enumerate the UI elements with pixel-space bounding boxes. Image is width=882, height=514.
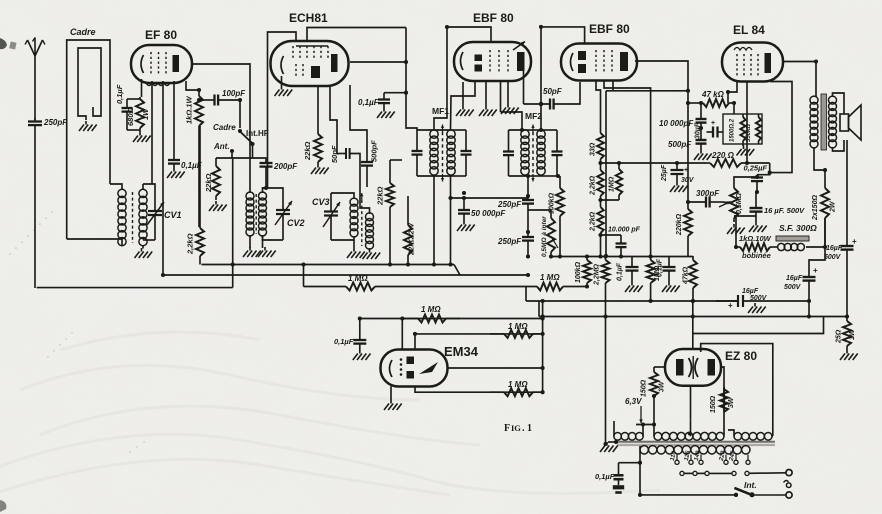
capacitor 500pF b <box>696 128 707 150</box>
wire diode to MF1 sec <box>451 82 476 130</box>
wire 0,1µF em <box>359 319 361 339</box>
label 16µF b <box>786 275 803 282</box>
svg-text:0,1µF: 0,1µF <box>115 84 124 104</box>
svg-text:16µF: 16µF <box>742 288 759 295</box>
junction <box>448 262 452 266</box>
core PT <box>615 441 775 443</box>
svg-text:6,3V: 6,3V <box>625 397 642 406</box>
resistor 2,2kΩ e1 <box>597 169 603 200</box>
wire return a <box>37 287 233 289</box>
wire EF80 grid <box>151 81 153 184</box>
junction <box>598 161 602 165</box>
resistor 1kΩ 1W <box>195 90 203 227</box>
wire EZ80 right plate <box>721 367 724 431</box>
svg-text:350kΩ: 350kΩ <box>746 124 752 142</box>
ground 0,1µF mains <box>613 485 624 489</box>
label 1MΩ em a <box>421 305 441 314</box>
core MF2 <box>532 132 534 135</box>
label 50pF osc <box>330 145 339 163</box>
label 10 000pF <box>659 119 694 128</box>
svg-text:22kΩ.2W: 22kΩ.2W <box>407 222 416 256</box>
label 1W <box>141 108 150 120</box>
junction <box>598 254 602 258</box>
wire L4 gnd lead <box>262 235 264 248</box>
label 1kΩ 1W <box>185 96 194 124</box>
label 22kΩ 2W <box>407 222 416 256</box>
antenna <box>25 38 45 121</box>
coil PT 6,3V winding <box>614 433 643 441</box>
capacitor MF2 cap a <box>503 130 514 176</box>
label 16µF a <box>826 245 843 252</box>
electrolytic 16µF d <box>716 295 761 310</box>
junction <box>539 102 543 106</box>
ground cadre <box>79 121 97 131</box>
ground EBF80a g <box>479 106 497 116</box>
svg-text:1W: 1W <box>141 108 150 120</box>
resistor 22kΩ switch <box>212 158 220 200</box>
ground EF80 cathode <box>133 132 151 142</box>
wire EBF80a g3 <box>507 82 509 104</box>
svg-text:1500Ω.2: 1500Ω.2 <box>730 118 736 142</box>
junction <box>638 461 642 465</box>
choke SF bar <box>776 236 809 241</box>
label 25Ω <box>836 329 843 344</box>
label 250pF <box>43 118 68 127</box>
svg-text:1kΩ.1W: 1kΩ.1W <box>185 96 194 124</box>
svg-text:16 µF. 500V: 16 µF. 500V <box>764 206 805 215</box>
core L5/L6 <box>361 200 363 203</box>
wire 63 right <box>642 425 644 437</box>
pot arrow <box>552 238 558 248</box>
label 22kΩ det <box>376 186 385 206</box>
wire MF1 prim bottom <box>433 176 435 265</box>
wire to 16uF mid <box>809 247 825 274</box>
label 1MΩ det <box>348 274 368 283</box>
tube label EF80 <box>145 28 177 42</box>
junction <box>691 299 695 303</box>
resistor 22kΩ det <box>386 160 394 265</box>
label 47kΩ <box>701 90 725 99</box>
label 22kΩ sw <box>204 173 213 193</box>
junction <box>388 262 392 266</box>
svg-text:500V: 500V <box>784 284 802 291</box>
label Int <box>744 480 757 490</box>
capacitor MF1 cap a <box>412 130 423 176</box>
junction <box>814 59 818 63</box>
label 2W <box>830 200 837 213</box>
junction <box>541 316 545 320</box>
label 0,5MΩ vol <box>736 192 743 214</box>
wire ECH81 anode link <box>350 61 406 63</box>
svg-text:1kΩ.10W: 1kΩ.10W <box>739 234 772 243</box>
svg-text:0,1µF: 0,1µF <box>358 98 380 107</box>
wire sel c <box>697 472 705 474</box>
svg-text:500V: 500V <box>750 295 768 302</box>
svg-text:25µF: 25µF <box>661 164 668 182</box>
wire 5v left <box>728 430 734 436</box>
label 10.000pF <box>608 227 641 234</box>
junction <box>617 161 621 165</box>
switch Int.HF <box>239 131 255 147</box>
resistor 47kΩ b <box>689 256 697 301</box>
wire EM34 line4 <box>415 386 543 392</box>
label 350kΩ <box>746 124 752 142</box>
svg-text:250pF: 250pF <box>43 118 68 127</box>
wire MF2 top b <box>541 129 557 131</box>
core L3/L4 <box>255 194 257 197</box>
svg-text:33Ω: 33Ω <box>590 142 597 156</box>
wire screen rail <box>605 91 607 256</box>
capacitor 16µF a <box>841 241 854 317</box>
junction <box>404 60 408 64</box>
junction <box>197 98 201 102</box>
label 16µF c <box>764 206 805 215</box>
resistor 1MΩ avc <box>536 283 564 291</box>
svg-text:0,5MΩ: 0,5MΩ <box>736 192 743 214</box>
ground 0,1µF c <box>625 282 643 292</box>
wire EM34 top line <box>360 318 543 320</box>
switch contact ant <box>230 149 234 153</box>
svg-text:1MΩ: 1MΩ <box>609 176 616 192</box>
wire mains cap link <box>619 462 641 464</box>
capacitor 250pF <box>28 118 42 130</box>
svg-text:3W: 3W <box>728 396 735 408</box>
svg-text:1 MΩ: 1 MΩ <box>508 380 528 389</box>
capacitor 0,1µF em <box>353 338 366 350</box>
label 22kΩ ech <box>303 141 312 161</box>
junction <box>691 314 695 318</box>
svg-text:47kΩ: 47kΩ <box>683 266 690 285</box>
junction <box>526 273 530 277</box>
label 30V <box>681 177 695 184</box>
label CV3 <box>312 197 330 207</box>
wire 1k10w left up <box>734 216 736 247</box>
svg-text:100kΩ: 100kΩ <box>549 192 556 214</box>
junction <box>526 230 530 234</box>
label tap 220 <box>719 450 727 463</box>
label 1MΩ e <box>609 176 616 192</box>
pot arrow vol <box>719 202 731 208</box>
wire mains left rail <box>605 317 607 445</box>
label 250pF a <box>497 200 522 209</box>
tube EBF80 a <box>454 42 531 82</box>
label 6,3V <box>625 397 642 406</box>
capacitor 0,1µF c <box>626 256 639 282</box>
label 0,1µF mains <box>595 472 615 481</box>
junction <box>755 190 759 194</box>
wire EZ80 cathode up <box>692 334 694 350</box>
svg-text:150Ω: 150Ω <box>710 395 717 413</box>
wire right rail top <box>846 140 848 241</box>
svg-text:+: + <box>684 167 688 174</box>
junction <box>462 196 466 200</box>
ground 22kΩ ech <box>311 164 329 174</box>
label 1MΩ c <box>654 265 661 281</box>
wire EF80 cathode <box>141 79 143 97</box>
capacitor 500pF osc <box>361 153 373 187</box>
label 150Ω a <box>641 379 648 397</box>
svg-text:22kΩ: 22kΩ <box>204 173 213 193</box>
svg-text:EBF 80: EBF 80 <box>473 11 514 25</box>
tube label ECH81 <box>289 11 328 25</box>
wire MF1 bot b <box>451 175 466 177</box>
resistor 0,5MΩ vol <box>730 184 738 222</box>
junction <box>432 262 436 266</box>
wire EM34 rail <box>542 301 544 392</box>
label 220Ω <box>711 151 735 160</box>
ground 16µF d <box>748 303 766 313</box>
resistor 220kΩ <box>684 209 692 256</box>
wire node 256 <box>551 256 693 258</box>
wire EBF80b top frame <box>541 27 585 130</box>
junction <box>549 254 553 258</box>
wire primary left <box>639 446 641 495</box>
svg-text:Ant.: Ant. <box>213 142 230 151</box>
label tap 245 <box>729 450 737 463</box>
resistor 47kΩ <box>688 99 734 107</box>
resistor 100kΩ det <box>556 176 564 256</box>
wire OT sec bot <box>833 140 845 151</box>
variable capacitor CV3 <box>323 193 340 240</box>
ground L5 <box>347 248 365 258</box>
junction <box>406 262 410 266</box>
svg-text:ECH81: ECH81 <box>289 11 328 25</box>
svg-text:EM34: EM34 <box>444 344 479 359</box>
label 500V b <box>784 284 802 291</box>
label tap 110 <box>670 450 678 461</box>
coil L2 antenna winding <box>139 189 147 245</box>
svg-text:2,2kΩ: 2,2kΩ <box>590 175 597 196</box>
capacitor 100pF <box>199 95 236 106</box>
junction <box>638 493 642 497</box>
svg-text:16µF: 16µF <box>826 245 843 252</box>
wire AVC bus <box>163 274 460 276</box>
svg-text:bobinée: bobinée <box>742 251 771 260</box>
wire ground bus <box>202 264 455 266</box>
wire MF1 B+ rail <box>406 28 417 131</box>
ground box <box>737 146 755 156</box>
label 500pF b <box>668 140 692 149</box>
wire osc grid <box>330 85 337 154</box>
wire osc link <box>263 187 268 189</box>
label 50 000pF <box>471 209 506 218</box>
wire EL84 screen <box>770 82 792 173</box>
label 1MΩ avc <box>540 273 560 282</box>
tube EZ80 <box>665 349 721 386</box>
mains plug <box>784 470 793 499</box>
junction <box>734 245 738 249</box>
ground EBF80a g3 <box>501 104 519 114</box>
wire box top <box>733 103 735 114</box>
wire 5v right <box>771 435 774 437</box>
label 0,1µF em <box>334 337 354 346</box>
ground 0,1µF em <box>353 350 371 360</box>
svg-text:0,1µF: 0,1µF <box>657 258 664 277</box>
wire heater node <box>636 424 654 426</box>
resistor 22kΩ 2W <box>404 196 412 265</box>
capacitor MF2 cap b <box>552 130 563 176</box>
svg-text:0,1µF: 0,1µF <box>617 262 624 281</box>
wire EBF80b anode rail <box>635 61 688 209</box>
tube label EZ80 <box>725 349 757 363</box>
cadre loop antenna <box>67 40 110 239</box>
wire ht left <box>653 430 655 436</box>
wire MF1 bot mid <box>434 175 451 177</box>
wire EM34 line3 <box>448 367 543 369</box>
label 0,25µF <box>744 164 768 173</box>
resistor 1MΩ c <box>647 256 655 301</box>
svg-text:2x150Ω: 2x150Ω <box>812 195 819 221</box>
junction <box>649 299 653 303</box>
junction <box>585 284 589 288</box>
label 47kΩ b <box>683 266 690 285</box>
wire return link <box>538 301 540 317</box>
svg-text:EBF 80: EBF 80 <box>589 22 630 36</box>
wire B+ bus b <box>761 300 810 302</box>
junction <box>404 91 408 95</box>
wire EM34 grid <box>401 319 403 351</box>
junction <box>445 25 449 29</box>
wire switch down <box>216 146 253 158</box>
junction <box>231 262 235 266</box>
capacitor 50 000pF <box>458 198 470 221</box>
wire cadre to L1 <box>110 184 122 190</box>
coil L6 osc <box>366 213 374 249</box>
wire MF2 top a <box>509 129 526 131</box>
junction <box>823 245 827 249</box>
junction <box>161 273 165 277</box>
junction <box>745 161 749 165</box>
wire to CV1 <box>143 184 155 190</box>
wire cath node b <box>127 129 140 131</box>
ground vol pot <box>727 224 745 234</box>
svg-text:0,5MΩ à inter: 0,5MΩ à inter <box>541 216 548 257</box>
junction <box>699 126 703 130</box>
label Ant <box>213 142 230 151</box>
svg-text:250pF: 250pF <box>497 200 522 209</box>
wire MF1 sec bottom <box>450 176 452 265</box>
junction <box>541 390 545 394</box>
wire OT prim bot <box>814 147 825 186</box>
wire EL84 grid <box>728 81 737 103</box>
ground 0,1µF screen <box>167 168 185 178</box>
junction <box>675 161 679 165</box>
junction <box>462 191 466 195</box>
wire MF2 sec bot <box>527 176 529 196</box>
ground 25Ω <box>840 350 858 360</box>
label 0,1µF ech <box>358 98 380 107</box>
ground 0,1µF ech <box>377 108 395 118</box>
junction <box>556 174 560 178</box>
label 16µF d <box>742 288 759 295</box>
wire EF80 g3 <box>162 81 164 275</box>
junction <box>686 200 690 204</box>
wire 50pF left <box>337 153 346 155</box>
svg-text:10.000 pF: 10.000 pF <box>608 227 641 234</box>
wire sel d <box>709 472 732 474</box>
choke SF winding <box>778 243 805 250</box>
wire cathode line <box>601 162 707 164</box>
junction <box>614 440 618 444</box>
label Fig 1 <box>504 423 510 434</box>
junction <box>539 128 543 132</box>
label CV2 <box>287 218 305 228</box>
resistor 2x150Ω 2W <box>821 186 829 247</box>
coil L1 cadre winding <box>118 189 126 245</box>
wire EM34 t2 <box>414 334 416 350</box>
transformer taps <box>675 455 750 465</box>
label 0,5MΩ inter <box>541 216 548 257</box>
resistor 0,5MΩ pot <box>547 210 555 257</box>
junction <box>768 171 772 175</box>
junction <box>526 194 530 198</box>
wire cap column <box>700 103 702 117</box>
resistor 22kΩ ech <box>314 132 322 164</box>
label 220kΩ <box>676 213 683 236</box>
ground L4 <box>258 247 276 257</box>
capacitor 0,1µF cathode <box>122 99 133 130</box>
wire CV3 top <box>331 193 354 199</box>
switch Int mains <box>734 488 786 497</box>
junction <box>845 314 849 318</box>
wire sel to plug <box>749 472 786 475</box>
junction <box>726 90 730 94</box>
capacitor 0,25µF <box>751 175 763 192</box>
wire MF1 top a <box>417 129 434 131</box>
wire EBF80a g3 pin <box>500 82 502 112</box>
junction <box>539 102 543 106</box>
label tap 140 <box>694 450 702 462</box>
label 0,1µF c <box>617 262 624 281</box>
svg-text:50pF: 50pF <box>543 87 563 96</box>
capacitor 0,1µF screen <box>168 158 180 168</box>
coil PT primary <box>640 446 750 454</box>
svg-text:CV2: CV2 <box>287 218 305 228</box>
wire HT corner <box>693 317 824 334</box>
junction <box>400 316 404 320</box>
wire ht right <box>723 431 725 436</box>
coil L5 osc <box>350 198 358 237</box>
wire 500pF up <box>350 85 367 153</box>
capacitor 10.000pF <box>616 235 627 257</box>
ground 25µF <box>670 182 688 192</box>
wire bus 286 b <box>376 286 536 288</box>
svg-text:22kΩ: 22kΩ <box>376 186 385 206</box>
capacitor 16µF c <box>750 192 763 222</box>
junction <box>649 254 653 258</box>
svg-text:1W: 1W <box>849 328 856 340</box>
junction <box>686 89 690 93</box>
wire EM34 line2 <box>415 333 543 335</box>
label 2,2kΩ e1 <box>590 175 597 196</box>
electrolytic 25µF <box>671 163 689 182</box>
wire em net down <box>600 235 602 257</box>
junction <box>691 299 695 303</box>
wire EBF80a k <box>462 82 464 106</box>
svg-text:+: + <box>711 120 715 127</box>
junction <box>526 254 530 258</box>
ground EM34 <box>384 400 402 410</box>
junction <box>598 198 602 202</box>
coil OT primary <box>810 96 818 148</box>
resistor 1MΩ det <box>345 283 376 291</box>
wire EM34 k <box>390 386 392 400</box>
label 33Ω <box>590 142 597 156</box>
coil PT 5V winding <box>734 433 772 441</box>
resistor 100kΩ b <box>583 256 591 287</box>
capacitor 0,1µF mains <box>614 463 624 485</box>
wire MF1 top mid <box>434 129 451 131</box>
